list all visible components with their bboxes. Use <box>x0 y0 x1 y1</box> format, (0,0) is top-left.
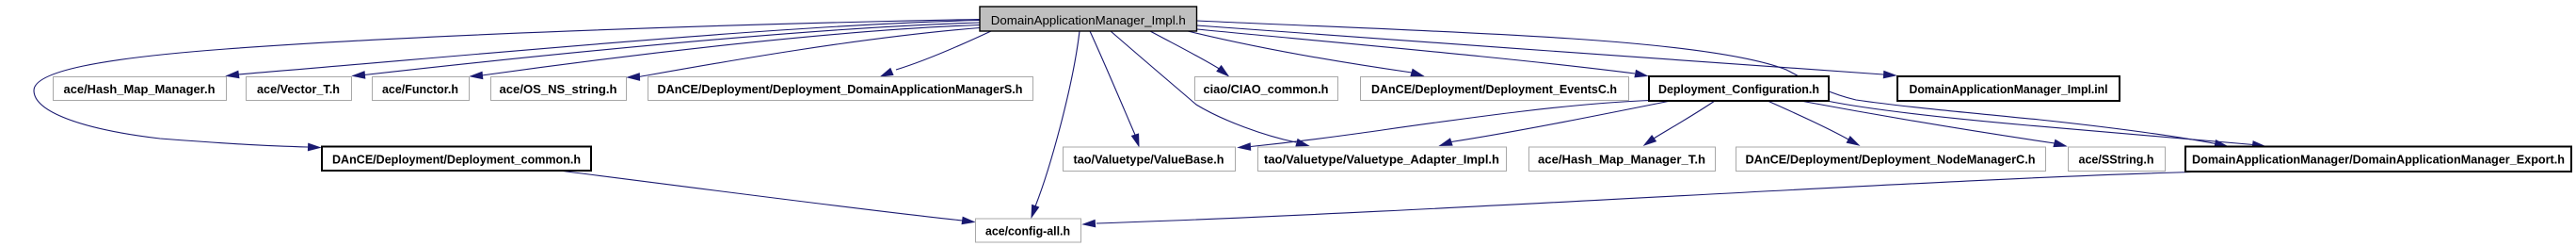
edge DomainApplicationManager_Impl.h -> ace/Vector_T.h <box>353 23 980 78</box>
edge Deployment_common.h -> ace/config-all.h <box>559 171 974 224</box>
edge DomainApplicationManager_Impl.h -> ace/Hash_Map_Manager.h <box>227 21 980 78</box>
node Deployment_Configuration.h <box>1649 76 1829 101</box>
node ciao/CIAO_common.h <box>1195 77 1338 101</box>
svg-text:tao/Valuetype/Valuetype_Adapte: tao/Valuetype/Valuetype_Adapter_Impl.h <box>1264 153 1499 167</box>
svg-text:ciao/CIAO_common.h: ciao/CIAO_common.h <box>1204 82 1329 96</box>
edge Deployment_Configuration.h -> tao/Valuetype/ValueBase.h <box>1239 101 1650 151</box>
edge DomainApplicationManager_Impl.h -> Deployment_Configuration.h <box>1197 29 1648 77</box>
node tao/Valuetype/ValueBase.h <box>1064 147 1236 172</box>
svg-text:ace/OS_NS_string.h: ace/OS_NS_string.h <box>500 82 617 96</box>
svg-text:ace/SString.h: ace/SString.h <box>2079 153 2154 167</box>
svg-text:ace/Hash_Map_Manager.h: ace/Hash_Map_Manager.h <box>64 82 216 96</box>
svg-text:ace/Vector_T.h: ace/Vector_T.h <box>257 82 340 96</box>
edge DomainApplicationManager_Impl.h -> ace/config-all.h <box>1032 31 1080 218</box>
edge DomainApplicationManager_Impl.h -> tao/Valuetype/ValueBase.h <box>1090 31 1139 146</box>
node DAnCE/Deployment/Deployment_DomainApplicationManagerS.h <box>648 77 1033 101</box>
edge DomainApplicationManager_Impl.h -> DomainApplicationManager_Export.h <box>1197 21 2228 147</box>
node tao/Valuetype/Valuetype_Adapter_Impl.h <box>1258 147 1507 172</box>
edge Deployment_Configuration.h -> ace/Hash_Map_Manager_T.h <box>1644 101 1715 145</box>
node ace/Hash_Map_Manager.h <box>54 77 227 101</box>
svg-text:DomainApplicationManager/Domai: DomainApplicationManager/DomainApplicati… <box>2192 153 2565 167</box>
edge DomainApplicationManager_Impl.h -> Deployment_EventsC.h <box>1188 31 1423 76</box>
edge Deployment_Configuration.h -> Deployment_NodeManagerC.h <box>1768 101 1859 145</box>
node DAnCE/Deployment/Deployment_EventsC.h <box>1361 77 1629 101</box>
svg-text:DomainApplicationManager_Impl.: DomainApplicationManager_Impl.inl <box>1910 82 2108 96</box>
edge DomainApplicationManager_Export.h -> ace/config-all.h <box>1083 172 2214 227</box>
edge DomainApplicationManager_Impl.h -> ace/Functor.h <box>471 25 980 79</box>
node ace/Hash_Map_Manager_T.h <box>1529 147 1716 172</box>
svg-text:DAnCE/Deployment/Deployment_co: DAnCE/Deployment/Deployment_common.h <box>332 153 581 167</box>
svg-text:DAnCE/Deployment/Deployment_Ev: DAnCE/Deployment/Deployment_EventsC.h <box>1371 82 1617 96</box>
edge Deployment_Configuration.h -> DomainApplicationManager_Export.h <box>1827 101 2264 148</box>
node DAnCE/Deployment/Deployment_NodeManagerC.h <box>1736 147 2046 172</box>
node ace/OS_NS_string.h <box>491 77 627 101</box>
edge DomainApplicationManager_Impl.h -> Deployment_DomainApplicationManagerS.h <box>881 31 991 76</box>
svg-text:ace/config-all.h: ace/config-all.h <box>985 224 1070 238</box>
edge Deployment_Configuration.h -> tao/Valuetype/Valuetype_Adapter_Impl.h <box>1440 101 1671 146</box>
node ace/SString.h <box>2069 147 2166 172</box>
edge DomainApplicationManager_Impl.h -> DomainApplicationManager_Impl.inl <box>1197 25 1896 78</box>
node ace/Functor.h <box>373 77 470 101</box>
node ace/config-all.h <box>976 219 1081 242</box>
node DAnCE/Deployment/Deployment_common.h <box>322 147 591 172</box>
edge DomainApplicationManager_Impl.h -> ace/OS_NS_string.h <box>628 28 980 81</box>
svg-text:tao/Valuetype/ValueBase.h: tao/Valuetype/ValueBase.h <box>1074 153 1224 167</box>
svg-text:DAnCE/Deployment/Deployment_No: DAnCE/Deployment/Deployment_NodeManagerC… <box>1746 153 2036 167</box>
node DomainApplicationManager_Impl.h (root) <box>980 7 1197 31</box>
node ace/Vector_T.h <box>247 77 352 101</box>
svg-text:ace/Hash_Map_Manager_T.h: ace/Hash_Map_Manager_T.h <box>1538 153 1705 167</box>
edge Deployment_Configuration.h -> ace/SString.h <box>1800 101 2066 147</box>
svg-text:DAnCE/Deployment/Deployment_Do: DAnCE/Deployment/Deployment_DomainApplic… <box>658 82 1023 96</box>
edge DomainApplicationManager_Impl.h -> Deployment_common.h (left loop) <box>34 20 980 151</box>
node DomainApplicationManager/DomainApplicationManager_Export.h <box>2185 147 2571 172</box>
node DomainApplicationManager_Impl.inl <box>1897 76 2120 101</box>
svg-text:ace/Functor.h: ace/Functor.h <box>382 82 458 96</box>
edge DomainApplicationManager_Impl.h -> ciao/CIAO_common.h <box>1150 31 1228 76</box>
edge DomainApplicationManager_Impl.h -> tao/Valuetype/Valuetype_Adapter_Impl.h <box>1111 31 1308 146</box>
svg-text:Deployment_Configuration.h: Deployment_Configuration.h <box>1658 82 1819 96</box>
svg-text:DomainApplicationManager_Impl.: DomainApplicationManager_Impl.h <box>991 13 1186 27</box>
